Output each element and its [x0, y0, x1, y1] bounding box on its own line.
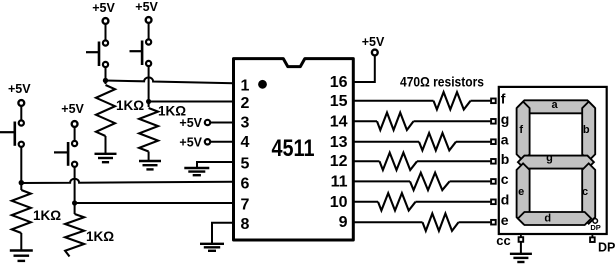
svg-text:6: 6: [241, 175, 250, 192]
svg-text:g: g: [546, 152, 553, 164]
svg-text:b: b: [583, 124, 590, 136]
svg-text:d: d: [501, 191, 510, 207]
svg-text:a: a: [501, 131, 509, 147]
svg-text:1KΩ: 1KΩ: [86, 229, 114, 244]
svg-text:c: c: [501, 171, 509, 187]
svg-text:+5V: +5V: [61, 102, 84, 116]
svg-text:4511: 4511: [272, 135, 315, 162]
svg-text:+5V: +5V: [92, 1, 115, 15]
svg-text:c: c: [582, 186, 588, 198]
svg-text:1KΩ: 1KΩ: [33, 208, 61, 223]
svg-text:+5V: +5V: [362, 35, 385, 49]
svg-text:+5V: +5V: [8, 82, 31, 96]
svg-text:5: 5: [241, 155, 250, 172]
svg-text:+5V: +5V: [179, 116, 202, 130]
svg-text:cc: cc: [496, 233, 510, 248]
svg-text:f: f: [501, 90, 506, 106]
svg-text:1KΩ: 1KΩ: [116, 98, 144, 113]
svg-text:4: 4: [241, 134, 250, 151]
svg-text:f: f: [519, 124, 523, 136]
svg-text:8: 8: [241, 216, 250, 233]
svg-text:a: a: [551, 99, 558, 111]
svg-text:+5V: +5V: [135, 0, 158, 14]
svg-text:DP: DP: [590, 223, 600, 232]
svg-text:d: d: [544, 212, 551, 224]
svg-text:9: 9: [339, 214, 348, 231]
svg-text:2: 2: [241, 95, 250, 112]
svg-text:e: e: [501, 212, 509, 228]
svg-text:1: 1: [241, 77, 250, 94]
svg-text:470Ω resistors: 470Ω resistors: [400, 75, 484, 90]
svg-text:13: 13: [330, 134, 348, 151]
svg-text:b: b: [501, 151, 510, 167]
svg-text:+5V: +5V: [179, 135, 202, 149]
svg-text:g: g: [501, 111, 510, 127]
svg-text:16: 16: [330, 74, 348, 91]
svg-text:15: 15: [330, 93, 348, 110]
svg-text:11: 11: [331, 174, 348, 191]
svg-text:7: 7: [241, 196, 250, 213]
svg-text:e: e: [518, 186, 524, 198]
svg-text:DP: DP: [598, 241, 615, 255]
svg-text:12: 12: [330, 153, 348, 170]
svg-text:14: 14: [330, 114, 348, 131]
svg-text:10: 10: [330, 194, 348, 211]
svg-text:3: 3: [241, 114, 250, 131]
